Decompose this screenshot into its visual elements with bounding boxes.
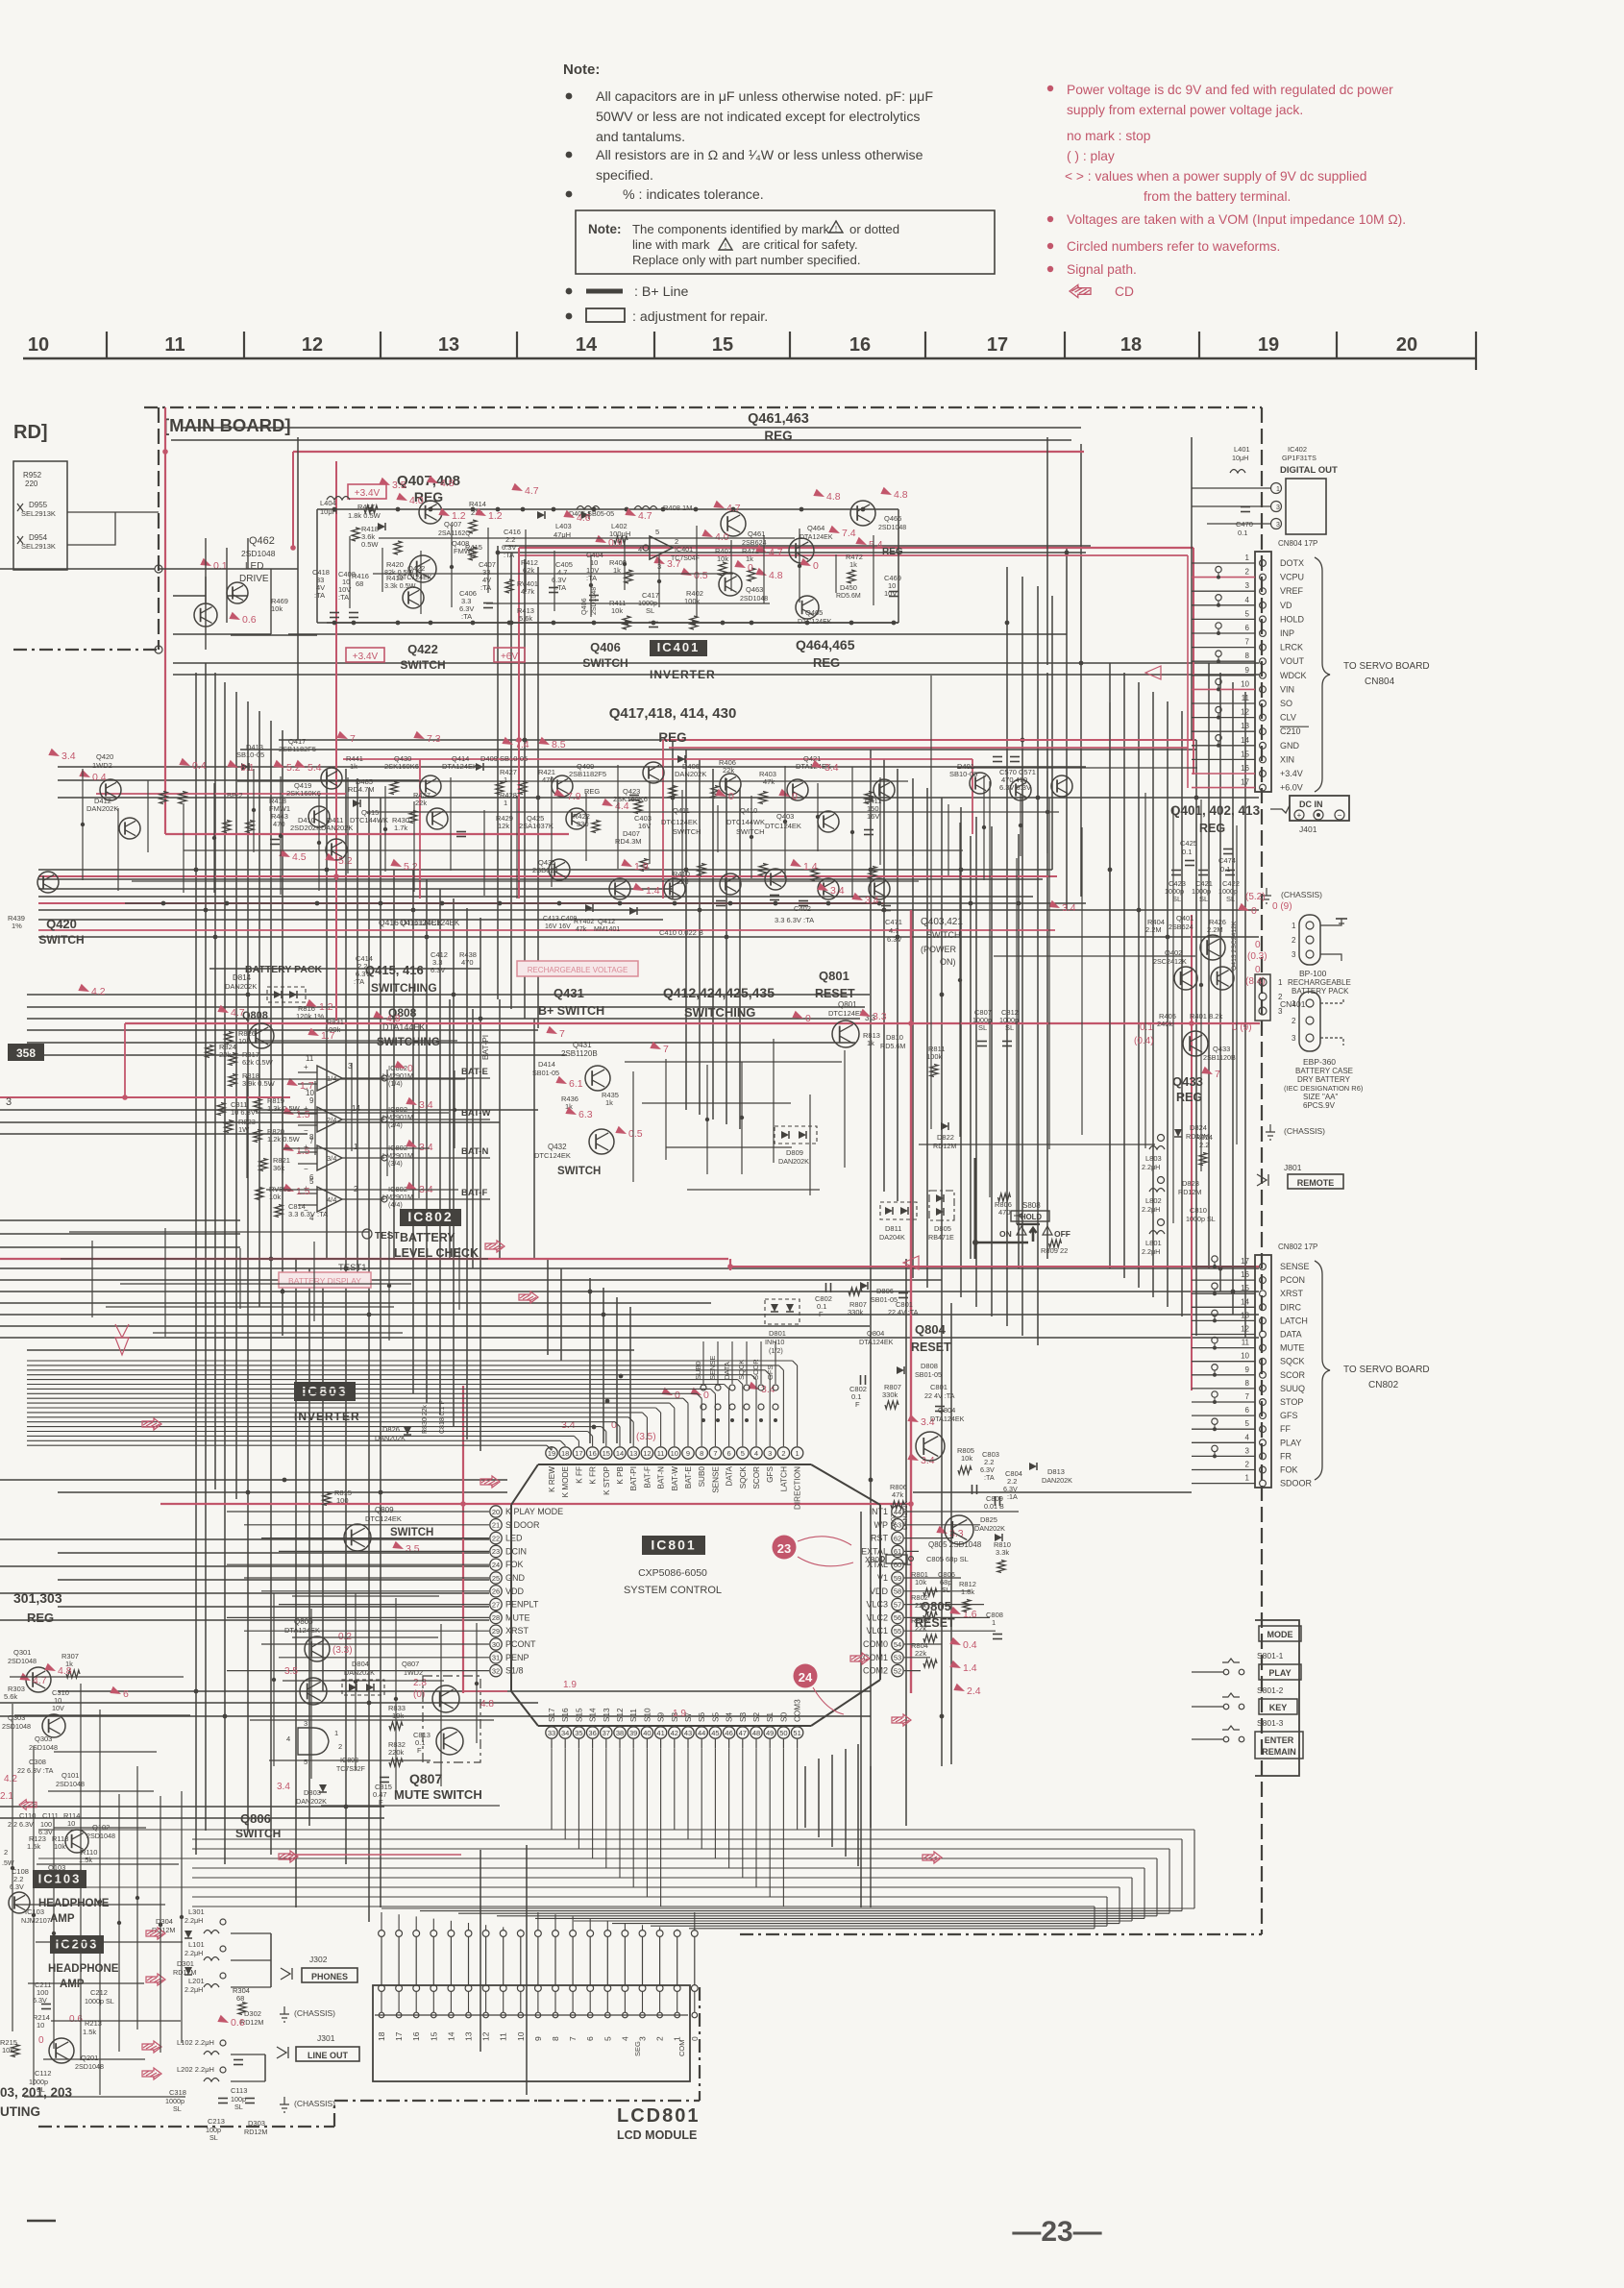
svg-text:L102 2.2μH: L102 2.2μH [177,2038,214,2047]
svg-text:Power voltage is dc 9V and fed: Power voltage is dc 9V and fed with regu… [1067,83,1393,97]
svg-text:VIN: VIN [1280,684,1294,694]
svg-text:1000p SL: 1000p SL [1186,1215,1216,1223]
svg-text:SB01-05: SB01-05 [532,1069,559,1077]
svg-text:4: 4 [1245,596,1250,604]
left maze wires [159,568,298,570]
transistor Q809 [344,1524,371,1551]
svg-text:DATA: DATA [1280,1330,1302,1340]
svg-text:2SB1182F5: 2SB1182F5 [569,770,606,778]
wire mesh audio left [12,1704,13,2031]
svg-text:3.3 6.3V :TA: 3.3 6.3V :TA [775,916,814,924]
svg-text:7: 7 [1245,638,1250,647]
svg-text:301,303: 301,303 [13,1590,62,1606]
svg-text:GND: GND [1280,741,1300,750]
svg-text:2SB1182F5: 2SB1182F5 [279,745,316,753]
svg-text::TA: :TA [338,593,349,602]
svg-text:2.1: 2.1 [0,1791,13,1802]
svg-text:5.2: 5.2 [404,861,418,873]
svg-text:1: 1 [1245,1474,1250,1483]
svg-text:L403: L403 [555,522,572,530]
svg-text:7: 7 [309,1137,314,1145]
svg-text:24: 24 [799,1670,813,1685]
svg-text:VDD: VDD [870,1587,889,1596]
svg-text:S1: S1 [766,1712,775,1722]
svg-text:( ) : play: ( ) : play [1067,149,1115,163]
svg-text:TEST: TEST [375,1231,400,1242]
svg-text:0: 0 [611,1419,617,1431]
svg-text:K FF: K FF [575,1466,583,1484]
svg-text:MUTE: MUTE [505,1612,530,1622]
svg-text:LED: LED [505,1534,523,1543]
svg-text:R427: R427 [500,768,517,776]
svg-text:RESET: RESET [815,987,855,1000]
svg-text:1k: 1k [867,1039,874,1047]
svg-text:1.9: 1.9 [563,1680,577,1690]
svg-text:0.01 B: 0.01 B [984,1502,1004,1511]
svg-text:10k: 10k [611,606,623,615]
svg-text:1: 1 [354,1143,358,1151]
svg-text:50WV or less are not indicated: 50WV or less are not indicated except fo… [596,110,921,125]
svg-text:Q412: Q412 [598,917,615,925]
svg-text:6.3V: 6.3V [887,935,901,944]
svg-text:2.4: 2.4 [967,1685,981,1697]
svg-text:58: 58 [894,1587,901,1596]
left board bottom boundary [13,649,159,651]
connector CN804 to servo board [1255,552,1271,792]
svg-text:56: 56 [894,1613,901,1622]
svg-text:6: 6 [1245,624,1250,632]
svg-text:+: + [304,1063,308,1071]
svg-text:51: 51 [793,1729,800,1737]
svg-text:(0.4): (0.4) [1134,1036,1154,1046]
svg-text:K REW: K REW [548,1466,556,1492]
svg-text:D809: D809 [786,1148,803,1157]
IC203 black label [50,1935,104,1954]
svg-text:D302: D302 [244,2009,261,2018]
svg-text:10k: 10k [54,1842,65,1851]
svg-text:DTA124EK: DTA124EK [284,1626,320,1635]
svg-text:3.5: 3.5 [406,1543,420,1555]
svg-text:17: 17 [1241,1257,1249,1266]
svg-text:1: 1 [1276,486,1280,493]
svg-text:16: 16 [1241,764,1249,773]
svg-text:DAN202K: DAN202K [86,804,118,813]
diode D809 pair [775,1126,817,1144]
svg-text:BAT-PI: BAT-PI [480,1035,490,1060]
svg-text:33: 33 [548,1729,555,1737]
svg-text:INH10: INH10 [765,1338,784,1346]
svg-text:41: 41 [656,1729,664,1737]
svg-text:4.5: 4.5 [292,851,307,863]
connector CN401 [1255,974,1270,1021]
svg-text:22k: 22k [723,766,734,775]
svg-text:REG: REG [882,547,903,557]
LCD boundary dash-dot [38,2126,334,2128]
svg-text:8: 8 [1245,1379,1250,1388]
svg-text:2: 2 [1292,936,1296,945]
svg-text:4.6: 4.6 [577,512,591,524]
svg-text:SL: SL [1226,895,1235,903]
svg-text:COM0: COM0 [863,1639,888,1649]
svg-text:23: 23 [777,1541,791,1556]
wire mesh battery/IC802 [246,1076,248,1178]
svg-text:53: 53 [894,1654,901,1662]
svg-text:20: 20 [492,1508,500,1516]
svg-text:SL: SL [173,2104,182,2113]
svg-text:Signal path.: Signal path. [1067,262,1137,277]
svg-text:J301: J301 [317,2033,335,2043]
red volt Q809 [392,1541,405,1553]
svg-text:3.4: 3.4 [419,1099,433,1111]
svg-text:0.1: 0.1 [1220,865,1230,873]
svg-text:WP: WP [874,1520,889,1530]
svg-text:(3.5): (3.5) [636,1432,656,1442]
svg-text:CXP5086-6050: CXP5086-6050 [638,1567,707,1579]
LCD801 connector & pins [379,1931,385,1937]
svg-text:14: 14 [1241,736,1249,745]
transistor Q465 [796,596,819,619]
svg-text:S14: S14 [589,1708,598,1722]
svg-text:SWITCH: SWITCH [582,656,627,670]
main board right boundary [1261,407,1263,1934]
svg-text:4.8: 4.8 [386,1013,401,1024]
svg-text:C113: C113 [231,2086,247,2095]
svg-text:HEADPHONE: HEADPHONE [38,1898,110,1909]
svg-text:16V: 16V [867,812,879,821]
svg-text:RD12M: RD12M [933,1142,956,1150]
svg-text::TA: :TA [984,1473,995,1482]
svg-text:LEVEL CHECK: LEVEL CHECK [394,1246,479,1260]
svg-text:D301: D301 [177,1959,194,1968]
svg-text:RD12M: RD12M [1178,1188,1201,1196]
svg-text:2: 2 [4,1848,8,1857]
svg-text:37: 37 [603,1729,610,1737]
svg-text:R414: R414 [469,500,486,508]
svg-text:30: 30 [492,1640,500,1649]
svg-text:HEADPHONE: HEADPHONE [48,1963,119,1975]
svg-text:2SB624: 2SB624 [532,866,558,874]
svg-text:100k: 100k [926,1052,943,1061]
svg-text:47k: 47k [892,1490,903,1499]
svg-text:CN804 17P: CN804 17P [1278,539,1317,548]
svg-text:SL: SL [1005,1023,1014,1032]
svg-text:% : indicates tolerance.: % : indicates tolerance. [623,187,764,203]
svg-text:K FR: K FR [589,1466,598,1485]
svg-text:62k 0.5W: 62k 0.5W [242,1058,274,1067]
svg-text:BAT-PI: BAT-PI [629,1466,638,1490]
svg-text:VCPU: VCPU [1280,573,1304,582]
red waveform circle 24 [794,1664,818,1688]
svg-text:1k: 1k [849,560,857,569]
svg-text:470: 470 [461,958,474,967]
svg-text:470: 470 [273,820,285,828]
svg-text:Q432: Q432 [548,1143,567,1151]
svg-text:SQCK: SQCK [1280,1357,1305,1366]
svg-text:SB01-05: SB01-05 [871,1295,898,1304]
legend B+ line [566,288,573,295]
diode pair D814 [274,991,282,998]
test points above IC801 [701,1385,706,1390]
svg-text:IC402: IC402 [1288,445,1307,454]
svg-text:C810: C810 [1190,1206,1207,1215]
svg-text:SB10-05: SB10-05 [236,750,264,759]
svg-text:3.4: 3.4 [824,762,839,774]
transistor Q463 [719,573,742,596]
svg-text:(IEC DESIGNATION R6): (IEC DESIGNATION R6) [1284,1084,1364,1093]
svg-text:D811: D811 [885,1224,901,1233]
svg-text:PCONT: PCONT [505,1639,536,1649]
svg-text:D803: D803 [304,1788,321,1797]
transistor Q806b [305,1636,330,1661]
svg-text:7: 7 [1215,1069,1220,1080]
red CD signal arrows [146,1928,165,1939]
svg-text:3.3: 3.3 [873,1011,887,1022]
grid ruler 10-20 [23,357,1476,360]
svg-text:RD4.7M: RD4.7M [348,785,375,794]
svg-text:0.1: 0.1 [1238,529,1247,537]
svg-text:2SB624: 2SB624 [742,538,767,547]
svg-text:C425: C425 [1180,839,1197,848]
svg-text:SWITCHING: SWITCHING [371,981,437,995]
svg-text:no mark : stop: no mark : stop [1067,129,1151,143]
svg-text:Q805 2SD1048: Q805 2SD1048 [928,1540,982,1549]
transistor Q801 [832,1021,859,1047]
svg-text:0.1: 0.1 [1140,1022,1153,1033]
svg-text:INT1: INT1 [869,1507,888,1516]
svg-text:2.8: 2.8 [413,1678,427,1688]
svg-text:38: 38 [616,1729,624,1737]
svg-text::1A: :1A [1007,1492,1018,1501]
svg-text:2: 2 [781,1449,785,1458]
red box +6V [494,648,525,662]
svg-text:D954: D954 [29,533,48,542]
svg-text:VLC2: VLC2 [866,1612,888,1622]
svg-text:SB01-05: SB01-05 [915,1370,942,1379]
svg-text:S801-3: S801-3 [1257,1718,1284,1728]
svg-text:4.2: 4.2 [4,1774,17,1784]
svg-text:Q201: Q201 [81,2054,98,2062]
svg-text:Q804: Q804 [867,1329,884,1338]
svg-text:14: 14 [1241,1297,1249,1306]
wire mesh under IC802 [91,1241,93,1317]
svg-text:F: F [417,1746,422,1755]
svg-text:Q808: Q808 [242,1010,268,1021]
svg-text:Q807: Q807 [409,1771,442,1786]
svg-text:Q401: Q401 [1176,914,1193,923]
svg-text:1W: 1W [238,1125,250,1134]
diodes D805 RB471E [929,1191,954,1220]
svg-text:10k: 10k [392,1711,404,1720]
svg-text:DTA124EK: DTA124EK [800,534,833,541]
svg-text:2SD1048: 2SD1048 [878,525,906,531]
svg-text:2: 2 [1245,1461,1250,1469]
svg-text:1.5k: 1.5k [83,2028,96,2036]
svg-text:FOK: FOK [505,1560,524,1569]
svg-text:1.2: 1.2 [452,510,466,522]
svg-text:4.7: 4.7 [638,510,652,522]
svg-text:VOUT: VOUT [1280,656,1305,666]
svg-text:RESET: RESET [911,1341,951,1354]
svg-text:OFF: OFF [1054,1229,1070,1239]
svg-text:7.3: 7.3 [427,733,441,745]
svg-text:Q461,463: Q461,463 [748,411,809,427]
svg-text:S801-2: S801-2 [1257,1685,1284,1695]
svg-text:J401: J401 [1299,824,1317,834]
svg-text:SEL2913K: SEL2913K [21,542,56,551]
svg-text:5: 5 [655,528,659,536]
svg-text:VREF: VREF [1280,586,1304,596]
svg-text:DTC124EK: DTC124EK [398,575,432,581]
svg-text::TA: :TA [480,583,491,592]
transistor Q466 [850,501,875,526]
IC801 bottom pins 33-51 [546,1727,557,1738]
svg-text:SL: SL [209,2133,218,2142]
svg-text:2.2μH: 2.2μH [1142,1163,1160,1171]
svg-text:13: 13 [1241,722,1249,730]
red volt IC802 [217,1005,230,1017]
svg-text:S3: S3 [739,1712,748,1722]
svg-text:49: 49 [766,1729,774,1737]
svg-text:RD]: RD] [13,422,48,443]
svg-text:17: 17 [394,2031,404,2041]
svg-text:D824: D824 [1190,1123,1207,1132]
svg-text:MUTE SWITCH: MUTE SWITCH [394,1787,482,1802]
svg-text:V1: V1 [877,1573,888,1583]
svg-text:(3/4): (3/4) [388,1159,403,1168]
svg-text:SWITCH: SWITCH [235,1827,281,1840]
svg-text:6: 6 [585,2036,595,2041]
svg-text:F: F [855,1400,860,1409]
transistor Q462 [227,582,248,603]
svg-text:J302: J302 [309,1955,328,1964]
svg-text:2.2μH: 2.2μH [185,1985,203,1994]
svg-text:7: 7 [713,1449,717,1458]
svg-text:C410 0.022 B: C410 0.022 B [659,928,703,937]
wire mesh right column [930,676,932,1129]
red box +3.4V (top) [348,484,386,499]
svg-text:4: 4 [638,545,642,554]
svg-text:R428: R428 [500,791,517,800]
svg-text:15: 15 [712,334,733,356]
svg-text:Q801: Q801 [838,1000,857,1009]
svg-text:R830 22k: R830 22k [422,1405,429,1434]
svg-text:SCOR: SCOR [1280,1370,1306,1380]
svg-text:Q403,421: Q403,421 [921,917,963,927]
svg-text:13: 13 [464,2031,474,2041]
svg-text:1.7: 1.7 [300,1080,314,1092]
svg-text:PHONES: PHONES [311,1972,348,1981]
svg-text:4.8: 4.8 [58,1665,72,1677]
svg-text:2.2μH: 2.2μH [1142,1205,1160,1214]
svg-text:0: 0 [407,1063,413,1074]
svg-text:16V: 16V [638,822,651,830]
svg-text:4.8: 4.8 [769,570,783,581]
svg-text:L801: L801 [1145,1239,1162,1247]
svg-text:D414: D414 [538,1060,555,1069]
svg-text:−: − [304,1126,308,1135]
connector CN802 to servo board [1255,1255,1271,1488]
svg-text:0.5W: 0.5W [361,540,379,549]
svg-text:4.8: 4.8 [894,489,908,501]
svg-text:03, 201, 203: 03, 201, 203 [0,2085,73,2100]
svg-text:7: 7 [568,2036,578,2041]
svg-text:1000p SL: 1000p SL [85,1997,114,2005]
svg-text:1.4: 1.4 [963,1662,977,1674]
svg-text:IC802: IC802 [407,1209,453,1224]
svg-text:REG: REG [27,1611,54,1625]
svg-text:68: 68 [356,579,363,588]
svg-text:2SD1048: 2SD1048 [8,1657,37,1665]
IC401 black label [650,640,707,656]
svg-text:BAT-E: BAT-E [461,1067,488,1077]
svg-text:FF: FF [1280,1424,1291,1434]
svg-text:3.4: 3.4 [830,885,845,897]
svg-text:5: 5 [309,1177,314,1186]
svg-text:LCD801: LCD801 [617,2105,700,2127]
svg-text:S0: S0 [779,1712,788,1722]
red volts mid [546,1026,558,1038]
svg-text:11: 11 [306,1054,314,1063]
svg-text:ON): ON) [940,957,956,967]
svg-text:REMAIN: REMAIN [1262,1747,1296,1757]
svg-text:62: 62 [894,1534,901,1542]
svg-text:35: 35 [575,1729,582,1737]
svg-text:(CHASSIS): (CHASSIS) [294,2008,335,2018]
svg-text:CD: CD [1115,284,1134,299]
svg-text:12: 12 [1241,1325,1249,1334]
svg-text:from the battery terminal.: from the battery terminal. [1144,189,1291,204]
svg-text:LRCK: LRCK [1280,643,1303,652]
svg-text:1.2: 1.2 [488,510,503,522]
svg-text:4: 4 [754,1449,758,1458]
svg-text:Q411: Q411 [673,806,690,815]
svg-text:All resistors are in Ω and ¹⁄₄: All resistors are in Ω and ¹⁄₄W or less … [596,148,923,163]
svg-text:: B+ Line: : B+ Line [634,284,689,300]
svg-text:2SA1162Q: 2SA1162Q [438,530,471,537]
svg-text:43: 43 [684,1729,692,1737]
svg-text:INVERTER: INVERTER [294,1410,360,1423]
svg-text:Q801: Q801 [819,969,849,983]
svg-text:S16: S16 [561,1708,570,1722]
key switch block S801 MODE/PLAY/KEY/ENTER [1255,1620,1299,1776]
svg-text:D801: D801 [769,1329,786,1338]
svg-text:+3.4V: +3.4V [353,652,379,662]
svg-text:Q807: Q807 [402,1660,419,1668]
svg-text:100k: 100k [684,597,701,605]
svg-text:TO SERVO BOARD: TO SERVO BOARD [1343,1365,1430,1375]
svg-text:1: 1 [334,1729,338,1737]
svg-text:0.4: 0.4 [192,760,207,772]
svg-text:12: 12 [643,1449,651,1458]
svg-text:1: 1 [796,1449,800,1458]
svg-text:0: 0 [690,2036,700,2041]
svg-text:2SB1120B: 2SB1120B [561,1049,598,1058]
svg-text:2: 2 [655,2036,665,2041]
svg-text:SCOR: SCOR [752,1466,761,1489]
IC801 bottom pin bus down [551,1749,553,1830]
svg-text:LCD MODULE: LCD MODULE [617,2128,697,2142]
svg-text:SENSE: SENSE [708,1356,717,1380]
svg-text:R952: R952 [23,471,42,480]
svg-text:D810: D810 [886,1033,903,1042]
svg-text:18: 18 [561,1449,569,1458]
svg-text:13: 13 [438,334,459,356]
svg-text:8: 8 [1245,652,1250,660]
red waveform circle 23 [773,1536,797,1560]
svg-text:K PLAY MODE: K PLAY MODE [505,1507,563,1516]
svg-text:K MODE: K MODE [561,1465,570,1497]
svg-text:8.5: 8.5 [552,739,566,750]
